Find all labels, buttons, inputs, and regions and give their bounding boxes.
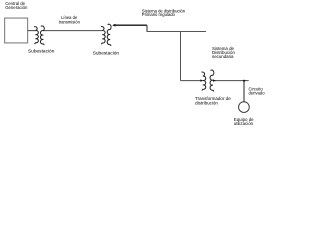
svg-text:derivado: derivado	[249, 91, 266, 96]
svg-text:utilización: utilización	[234, 121, 254, 126]
svg-text:secundaria: secundaria	[212, 54, 234, 59]
svg-text:distribución: distribución	[195, 100, 218, 105]
svg-text:Primario regulado: Primario regulado	[142, 12, 176, 17]
svg-text:Subestación: Subestación	[28, 49, 55, 55]
svg-text:Generación: Generación	[5, 5, 28, 10]
svg-text:Subestación: Subestación	[93, 50, 120, 56]
svg-text:transmisión: transmisión	[59, 19, 81, 24]
